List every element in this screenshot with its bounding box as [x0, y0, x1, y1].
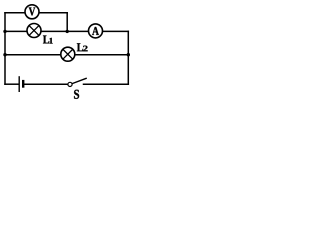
switch S pivot [68, 82, 72, 86]
wire top row (voltmeter branch) [5, 12, 67, 14]
wire middle row (L1 / ammeter) [5, 30, 128, 32]
wire left column [4, 13, 6, 84]
battery B1 long plate [18, 76, 20, 92]
node junction left-L2 [3, 53, 6, 56]
voltmeter V [25, 5, 39, 19]
wire right column [127, 31, 129, 84]
battery B1 short thick plate [22, 80, 24, 88]
lamp L1 [27, 24, 41, 38]
node junction left-L1 [3, 30, 6, 33]
switch S blade [72, 78, 86, 83]
label S [74, 90, 79, 99]
label L1 [43, 36, 53, 44]
wire battery to switch [24, 83, 68, 85]
node junction L2 / right column [127, 53, 130, 56]
wire switch to bottom right [84, 83, 129, 85]
wire voltmeter-loop right vertical [66, 13, 68, 32]
label L2 [77, 43, 88, 51]
node junction voltmeter-loop / L1 wire [66, 30, 69, 33]
ammeter A [89, 24, 103, 38]
wire L2 row [5, 54, 128, 56]
lamp L2 [61, 47, 75, 61]
wire bottom left to battery [5, 83, 19, 85]
